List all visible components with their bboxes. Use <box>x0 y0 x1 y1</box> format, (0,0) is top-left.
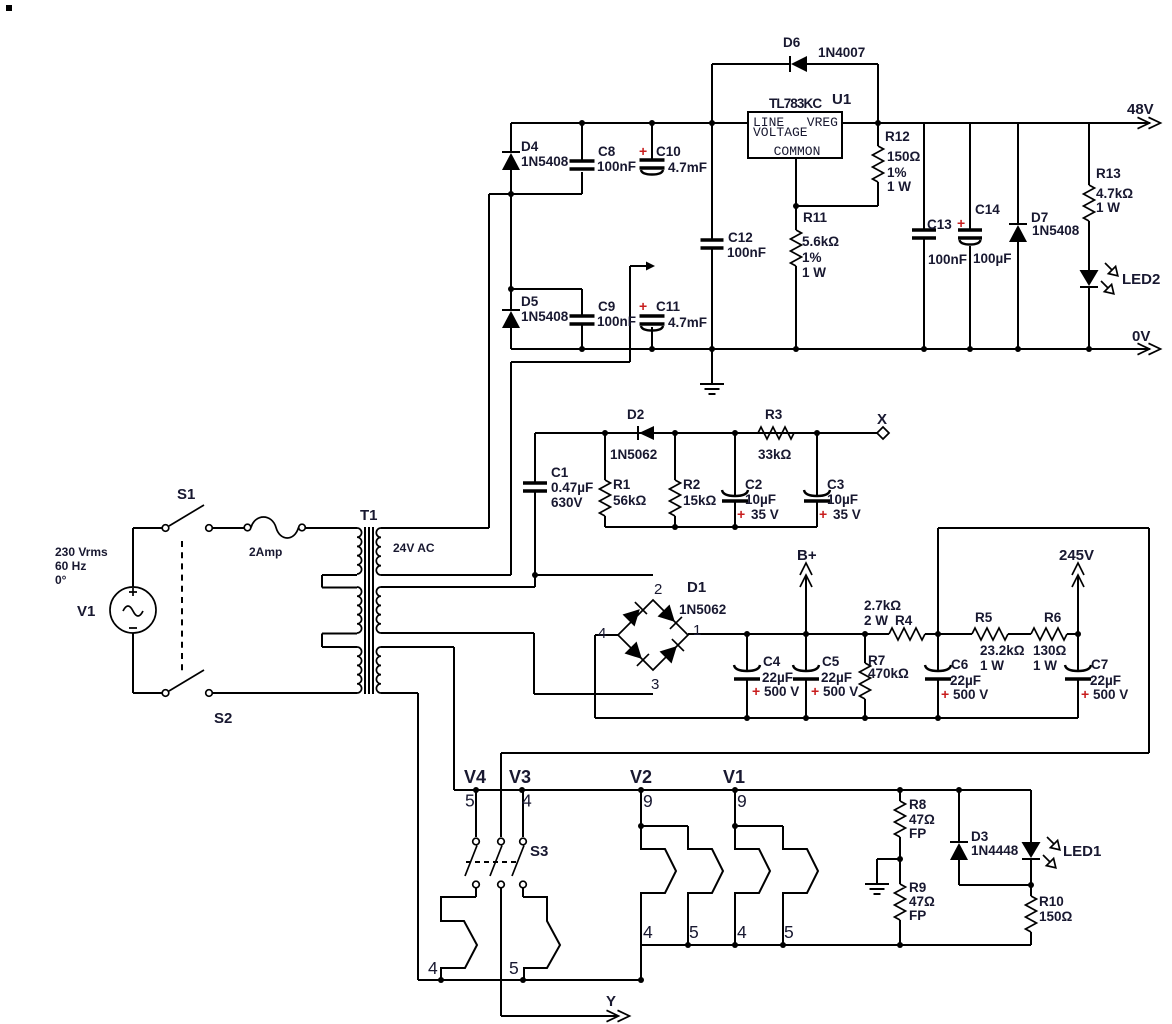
svg-text:R5: R5 <box>975 610 993 625</box>
svg-text:48V: 48V <box>1127 101 1154 118</box>
svg-text:C3: C3 <box>827 477 845 492</box>
svg-text:9: 9 <box>643 791 653 811</box>
svg-text:22µF: 22µF <box>821 670 852 685</box>
svg-text:1N5408: 1N5408 <box>521 309 569 324</box>
svg-text:V4: V4 <box>464 767 486 787</box>
svg-text:Y: Y <box>606 993 616 1010</box>
svg-text:V3: V3 <box>509 767 531 787</box>
svg-text:245V: 245V <box>1059 547 1094 564</box>
svg-text:C10: C10 <box>656 144 681 159</box>
svg-text:+: + <box>941 686 949 702</box>
svg-text:C8: C8 <box>598 144 616 159</box>
svg-text:R10: R10 <box>1039 894 1064 909</box>
svg-text:+: + <box>639 298 647 314</box>
svg-text:23.2kΩ: 23.2kΩ <box>980 643 1025 658</box>
svg-text:1N5062: 1N5062 <box>679 602 726 617</box>
svg-text:15kΩ: 15kΩ <box>683 493 717 508</box>
svg-text:150Ω: 150Ω <box>887 149 921 164</box>
svg-text:4: 4 <box>737 922 747 942</box>
svg-text:4: 4 <box>428 958 438 978</box>
svg-text:4.7kΩ: 4.7kΩ <box>1096 186 1133 201</box>
svg-text:2.7kΩ: 2.7kΩ <box>864 598 901 613</box>
svg-text:X: X <box>877 411 887 428</box>
svg-text:R13: R13 <box>1096 166 1121 181</box>
svg-text:1: 1 <box>693 622 701 639</box>
svg-text:V1: V1 <box>77 603 95 620</box>
svg-text:24V AC: 24V AC <box>393 541 435 555</box>
svg-text:COMMON: COMMON <box>774 144 821 159</box>
svg-text:130Ω: 130Ω <box>1033 643 1067 658</box>
svg-text:4.7mF: 4.7mF <box>668 160 707 175</box>
svg-text:1N5408: 1N5408 <box>1032 223 1080 238</box>
svg-text:C9: C9 <box>598 299 615 314</box>
svg-text:100nF: 100nF <box>597 314 636 329</box>
svg-text:500 V: 500 V <box>823 684 858 699</box>
svg-text:2Amp: 2Amp <box>249 545 282 559</box>
svg-text:2 W: 2 W <box>864 613 888 628</box>
svg-text:1N4007: 1N4007 <box>818 45 865 60</box>
svg-text:100µF: 100µF <box>973 251 1012 266</box>
svg-text:100nF: 100nF <box>597 159 636 174</box>
svg-text:5: 5 <box>509 958 519 978</box>
svg-text:+: + <box>752 683 760 699</box>
svg-text:35 V: 35 V <box>751 507 779 522</box>
svg-text:22µF: 22µF <box>762 670 793 685</box>
svg-text:VREG: VREG <box>807 115 838 130</box>
svg-text:1N5408: 1N5408 <box>521 154 569 169</box>
svg-text:D3: D3 <box>971 829 989 844</box>
svg-text:D5: D5 <box>521 294 539 309</box>
svg-text:LED1: LED1 <box>1063 843 1101 860</box>
svg-text:LED2: LED2 <box>1122 271 1160 288</box>
svg-text:R11: R11 <box>803 210 828 225</box>
svg-text:1 W: 1 W <box>887 179 911 194</box>
svg-text:S3: S3 <box>530 843 548 860</box>
svg-text:+: + <box>1081 686 1089 702</box>
svg-text:R3: R3 <box>765 407 783 422</box>
svg-text:9: 9 <box>737 791 747 811</box>
svg-text:R4: R4 <box>895 613 913 628</box>
svg-text:1 W: 1 W <box>802 265 826 280</box>
svg-text:35 V: 35 V <box>833 507 861 522</box>
svg-text:5: 5 <box>465 791 475 811</box>
svg-text:0°: 0° <box>55 573 67 587</box>
svg-text:22µF: 22µF <box>950 673 981 688</box>
svg-text:R6: R6 <box>1044 610 1062 625</box>
svg-text:10µF: 10µF <box>745 492 776 507</box>
svg-text:R12: R12 <box>885 129 910 144</box>
svg-text:TL783KC: TL783KC <box>769 96 822 111</box>
svg-text:FP: FP <box>909 908 926 923</box>
svg-text:100nF: 100nF <box>928 252 967 267</box>
svg-text:C2: C2 <box>745 477 762 492</box>
svg-text:22µF: 22µF <box>1090 673 1121 688</box>
svg-text:+: + <box>819 506 827 522</box>
svg-text:150Ω: 150Ω <box>1039 909 1073 924</box>
svg-text:5.6kΩ: 5.6kΩ <box>802 234 839 249</box>
svg-text:4.7mF: 4.7mF <box>668 315 707 330</box>
svg-text:D1: D1 <box>687 579 706 596</box>
svg-text:4: 4 <box>643 922 653 942</box>
svg-text:+: + <box>639 143 647 159</box>
svg-text:S1: S1 <box>177 486 195 503</box>
svg-text:+: + <box>811 683 819 699</box>
svg-text:V2: V2 <box>630 767 652 787</box>
svg-text:C6: C6 <box>951 657 969 672</box>
svg-text:470kΩ: 470kΩ <box>868 666 909 681</box>
svg-text:1 W: 1 W <box>980 658 1004 673</box>
svg-text:D4: D4 <box>521 139 539 154</box>
svg-text:FP: FP <box>909 826 926 841</box>
svg-text:1%: 1% <box>887 165 907 180</box>
svg-text:2: 2 <box>654 581 662 598</box>
svg-text:D2: D2 <box>627 407 644 422</box>
svg-text:56kΩ: 56kΩ <box>613 493 647 508</box>
svg-text:500 V: 500 V <box>1093 687 1128 702</box>
svg-text:U1: U1 <box>832 91 851 108</box>
svg-text:100nF: 100nF <box>727 245 766 260</box>
svg-text:5: 5 <box>784 922 794 942</box>
svg-text:C12: C12 <box>728 230 753 245</box>
svg-text:0.47µF: 0.47µF <box>551 480 593 495</box>
svg-text:C11: C11 <box>656 299 681 314</box>
svg-text:500 V: 500 V <box>764 684 799 699</box>
svg-text:R9: R9 <box>909 880 926 895</box>
svg-text:1 W: 1 W <box>1033 658 1057 673</box>
svg-text:230 Vrms: 230 Vrms <box>55 545 108 559</box>
svg-text:VOLTAGE: VOLTAGE <box>753 125 808 140</box>
svg-text:T1: T1 <box>360 507 378 524</box>
svg-text:5: 5 <box>689 922 699 942</box>
svg-text:0V: 0V <box>1132 328 1150 345</box>
svg-text:C7: C7 <box>1091 657 1108 672</box>
svg-text:+: + <box>957 215 965 231</box>
svg-text:1N5062: 1N5062 <box>610 447 657 462</box>
svg-text:47Ω: 47Ω <box>909 812 935 827</box>
svg-text:1 W: 1 W <box>1096 200 1120 215</box>
svg-text:C5: C5 <box>822 654 840 669</box>
svg-text:R2: R2 <box>683 477 700 492</box>
svg-text:V1: V1 <box>723 767 745 787</box>
svg-text:S2: S2 <box>214 710 232 727</box>
svg-text:C1: C1 <box>551 465 569 480</box>
svg-text:3: 3 <box>651 676 659 693</box>
svg-text:4: 4 <box>598 625 606 642</box>
svg-text:+: + <box>737 506 745 522</box>
svg-text:B+: B+ <box>797 547 817 564</box>
svg-text:630V: 630V <box>551 495 583 510</box>
svg-text:33kΩ: 33kΩ <box>758 447 792 462</box>
svg-text:10µF: 10µF <box>827 492 858 507</box>
svg-text:500 V: 500 V <box>953 687 988 702</box>
svg-text:4: 4 <box>522 791 532 811</box>
svg-text:1%: 1% <box>802 250 822 265</box>
svg-text:C4: C4 <box>763 654 781 669</box>
svg-text:R1: R1 <box>613 477 631 492</box>
svg-text:D6: D6 <box>783 35 801 50</box>
svg-text:1N4448: 1N4448 <box>971 843 1019 858</box>
svg-text:47Ω: 47Ω <box>909 894 935 909</box>
svg-text:60 Hz: 60 Hz <box>55 559 86 573</box>
svg-text:C13: C13 <box>927 217 952 232</box>
svg-text:C14: C14 <box>975 202 1000 217</box>
svg-text:R8: R8 <box>909 797 927 812</box>
